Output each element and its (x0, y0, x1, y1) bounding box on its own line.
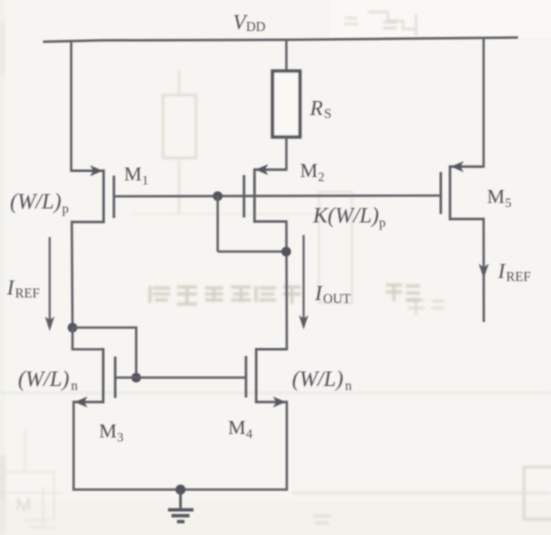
wire M2 drain to M4 drain (285, 220, 288, 350)
svg-text:p: p (379, 215, 386, 230)
transistor M2 (244, 164, 287, 223)
ghost small text right 2 (decorative) (386, 284, 420, 301)
wire node C to M3 drain (73, 328, 104, 350)
wire VDD to M1 source (left rail) (70, 40, 72, 172)
ghost small text right (decorative) (383, 22, 444, 315)
svg-text:p: p (62, 201, 69, 216)
wire M4 source to ground rail (286, 401, 288, 491)
svg-text:n: n (71, 378, 78, 393)
wire gate rail M3-M4 (115, 376, 246, 378)
node C (IREF node) (68, 323, 78, 333)
svg-text:n: n (345, 378, 352, 393)
svg-text:I: I (6, 276, 15, 300)
ghost mirrored text band (decorative) (150, 286, 301, 304)
label K(W/L)p (312, 203, 386, 231)
svg-text:I: I (314, 281, 323, 305)
transistor M1 (71, 165, 114, 223)
wire M3 diode connection (node C to node D) (73, 328, 137, 378)
arrow IREF left (45, 237, 54, 331)
label M4 (228, 417, 253, 441)
label (W/L)p (10, 189, 69, 217)
svg-text:M: M (228, 417, 246, 439)
label IREF left (6, 276, 40, 301)
label M5 (487, 186, 512, 210)
node D (M3 gate node) (131, 373, 141, 383)
wire node A down (216, 196, 218, 252)
wire ground rail (74, 488, 287, 490)
label IREF right (497, 259, 531, 284)
wire node A to node B (218, 250, 287, 252)
svg-text:4: 4 (246, 426, 253, 441)
wire VDD to M5 source (482, 39, 484, 168)
label VDD (233, 10, 266, 34)
node A (M1/M2 gate node) (213, 191, 223, 201)
svg-text:(W/L): (W/L) (18, 366, 69, 391)
svg-text:2: 2 (318, 169, 325, 184)
transistor M3 (74, 348, 116, 408)
svg-text:5: 5 (505, 195, 512, 210)
arrow IREF right (on wire) (479, 264, 489, 279)
svg-text:(W/L): (W/L) (292, 366, 343, 391)
svg-text:1: 1 (142, 173, 149, 188)
svg-text:REF: REF (15, 286, 40, 301)
wire VDD rail (43, 38, 518, 42)
svg-text:M: M (99, 421, 117, 443)
svg-text:3: 3 (117, 430, 124, 445)
svg-text:OUT: OUT (323, 291, 351, 306)
svg-text:I: I (497, 259, 506, 283)
wire gate rail M1-M2-M5 (114, 194, 441, 197)
wire VDD to RS (285, 40, 287, 72)
label M2 (300, 160, 325, 184)
wire RS to M2 source (285, 137, 287, 171)
transistor M5 (441, 161, 484, 220)
node B (M2 drain node) (281, 247, 291, 257)
svg-text:K(W/L): K(W/L) (312, 203, 379, 228)
svg-text:R: R (309, 96, 323, 120)
svg-text:REF: REF (506, 269, 531, 284)
wire M3 source to ground rail (72, 401, 74, 491)
label M3 (99, 421, 124, 445)
wire M5 drain down (482, 218, 485, 322)
label IOUT (314, 281, 351, 306)
label (W/L)n left (18, 366, 78, 393)
svg-text:S: S (324, 106, 332, 121)
resistor RS (273, 71, 301, 137)
arrow IOUT (299, 235, 308, 330)
svg-text:M: M (300, 160, 318, 182)
label M1 (124, 164, 149, 188)
ground symbol (168, 490, 194, 522)
svg-text:M: M (124, 164, 142, 186)
svg-text:M: M (487, 186, 505, 208)
label RS (309, 96, 332, 121)
label (W/L)n right (292, 366, 352, 393)
svg-text:(W/L): (W/L) (10, 189, 61, 214)
svg-text:DD: DD (246, 19, 266, 34)
wire M1 drain down to node C (71, 221, 74, 328)
node E (ground node) (175, 485, 185, 495)
transistor M4 (246, 348, 287, 408)
